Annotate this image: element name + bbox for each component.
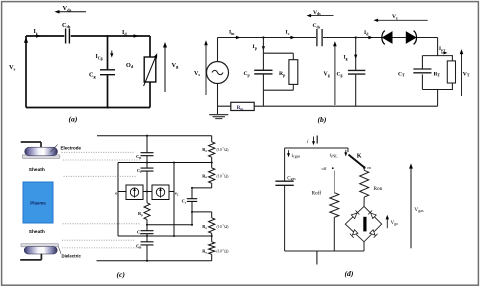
node line lower (c) — [118, 235, 212, 237]
svg-text:Ron: Ron — [374, 186, 383, 192]
bridge diode top-right (d) — [368, 210, 376, 218]
right rail (c) — [173, 163, 175, 237]
link Cc-Re3 (c) — [192, 211, 212, 213]
ground (b) — [209, 114, 228, 116]
wire (a) middle branch lower — [107, 75, 109, 107]
boundary dotted line 3 — [64, 175, 137, 177]
current source box 1 (c) — [126, 185, 143, 200]
off link line (d) — [333, 171, 335, 193]
wire (d) cap branch lower — [284, 186, 286, 251]
wire (d) switch to Ron — [363, 168, 365, 171]
svg-text:(10: (10 — [217, 148, 222, 152]
boundary dotted line 2 — [63, 159, 142, 161]
svg-text:(d): (d) — [345, 269, 354, 278]
current arrow i (d) — [313, 137, 315, 143]
capacitor Cs upper (c) — [141, 168, 154, 171]
wire (b) tank to bottom — [437, 90, 439, 107]
wire (b) top run 1 — [218, 37, 317, 39]
bridge link right (c) — [169, 191, 174, 193]
dielectric disk — [24, 247, 57, 255]
arrow Vgo (d) — [386, 217, 388, 228]
capacitor Cp (b) — [254, 53, 272, 90]
resistor Re1 (c) — [211, 136, 213, 142]
svg-text:Ω): Ω) — [224, 148, 229, 152]
wire (c) Rp to node — [146, 220, 148, 231]
current arrow IPT (b) — [441, 52, 445, 54]
svg-text:off: off — [322, 166, 328, 171]
svg-text:(10: (10 — [217, 225, 222, 229]
diode D2 (b) cathode curve — [414, 31, 417, 45]
junction node Cg top (b) — [355, 36, 357, 38]
boundary dotted line 5 — [62, 239, 135, 241]
arrow Vgas (d) — [410, 166, 412, 248]
dielectric plate — [21, 244, 59, 247]
resistor Rin (b) box — [231, 102, 254, 110]
wire (d) Roff to bottom — [333, 217, 335, 251]
current arrow Iin (b) — [236, 36, 241, 39]
capacitor Cc plates (c) — [187, 199, 197, 202]
junction node Cp top (b) — [262, 36, 264, 38]
current source 1 arrow (c) — [134, 190, 136, 198]
capacitor Cds (b) plates — [317, 29, 322, 46]
node line upper (c) — [118, 162, 212, 164]
svg-text:Sheath: Sheath — [29, 229, 45, 235]
wire (a) left branch with Vs arrow — [25, 36, 27, 108]
diode bridge (d) diamond — [345, 206, 381, 241]
svg-text:Roff: Roff — [312, 190, 322, 197]
svg-text:(c): (c) — [117, 270, 126, 279]
plasma region — [23, 182, 53, 223]
wire (b) down to RC tank — [437, 38, 439, 56]
bridge link center (c) — [143, 191, 152, 193]
wire (b) top run 2 — [323, 37, 438, 39]
resistor Ron (d) — [360, 170, 369, 197]
wire (c) top rail — [97, 135, 212, 137]
arrow Vds (a) — [58, 11, 86, 13]
boundary dotted line 4 — [63, 223, 141, 225]
svg-text:e2: e2 — [175, 191, 179, 197]
svg-text:Sheath: Sheath — [29, 167, 45, 173]
current arrow Id (b) — [368, 36, 373, 39]
AC source (b) circle — [207, 62, 229, 84]
wire (b) bottom run — [218, 105, 438, 107]
arrow Vds (b) — [309, 15, 334, 17]
capacitor Cg (b) plates — [348, 70, 365, 74]
wire (b) AC to top — [217, 38, 219, 62]
junction node (a) mid-bottom — [106, 106, 108, 108]
capacitor Cs lower (c) — [141, 231, 154, 234]
wire (b) parallel top link — [263, 53, 293, 60]
svg-text:Plasma: Plasma — [30, 201, 46, 206]
svg-text:(b): (b) — [318, 115, 327, 124]
wire (d) Ron to bridge — [363, 197, 365, 206]
bridge diode bottom-left (d) — [350, 229, 358, 237]
diode D2 (b) — [406, 31, 417, 44]
current source 2 arrow (c) — [160, 190, 162, 198]
current source 1 circle (c) — [130, 188, 138, 196]
current source 2 circle (c) — [156, 188, 164, 196]
capacitor Cc branch (c) — [191, 188, 193, 225]
wire (b) parallel bottom link — [263, 84, 293, 106]
wire (a) top left segment — [26, 35, 64, 37]
current source box 2 (c) — [152, 185, 169, 200]
wire (c) bottom rail — [97, 260, 212, 262]
electrode disk — [25, 147, 58, 156]
bridge diode bottom-right (d) — [369, 229, 377, 237]
left rail (c) — [117, 163, 119, 237]
svg-text:Dielectric: Dielectric — [62, 254, 82, 259]
varistor Od (a) arrow — [144, 56, 157, 87]
bridge diode top-left (d) — [351, 210, 359, 218]
wire (d) bottom — [285, 250, 364, 252]
wire (d) cap branch upper — [284, 148, 286, 181]
arrow Vs (b) — [205, 43, 207, 95]
svg-text:Rin: Rin — [237, 106, 244, 111]
wire (a) bottom — [26, 107, 150, 109]
wire (c) center to node — [146, 156, 148, 168]
bridge link left (c) — [118, 191, 126, 193]
link Re2-Cc (c) — [192, 187, 212, 189]
resistor Rp (b) box — [289, 60, 298, 85]
svg-text:K: K — [357, 153, 362, 160]
svg-text:irNL: irNL — [330, 153, 339, 159]
capacitor Cds (a) plates — [66, 29, 70, 44]
svg-text:e1: e1 — [115, 191, 119, 197]
boundary dotted line 6 — [62, 247, 140, 249]
svg-text:Id: Id — [122, 30, 127, 36]
current arrow icgas (d) — [288, 150, 290, 154]
resistor Re3 (c) — [211, 212, 213, 218]
current arrow Id (a) — [134, 34, 139, 38]
arrow VT (b) — [461, 51, 463, 96]
svg-text:icgas: icgas — [292, 153, 301, 159]
AC source (b) sine — [212, 70, 223, 74]
wire (c) center bottom — [146, 245, 148, 261]
arrow Vz (b) — [376, 19, 428, 21]
wire (b) AC to ground — [217, 84, 219, 115]
wire (b) Cp branch top — [262, 38, 264, 54]
current arrow ICg (a) — [111, 51, 113, 55]
wire (c) center upper — [146, 136, 148, 153]
dielectric pointer line — [59, 247, 62, 254]
resistor Re2 (c) — [209, 168, 215, 183]
arrow Vg (a) — [164, 45, 166, 92]
switch K (d) — [349, 155, 365, 168]
wire (d) bridge to bottom — [363, 242, 365, 251]
svg-text:Ω): Ω) — [224, 225, 229, 229]
electrode pointer line — [50, 145, 57, 153]
svg-text:Ω): Ω) — [224, 249, 229, 253]
resistor Roff (d) — [330, 193, 339, 218]
bridge center bar (d) — [363, 217, 366, 232]
svg-text:Ω): Ω) — [224, 174, 229, 178]
varistor Od (a) box — [144, 57, 156, 82]
capacitor CB lower (c) — [141, 242, 154, 245]
dielectric wire stub — [20, 254, 41, 260]
diode D1 (b) — [382, 31, 393, 44]
capacitor Cgas (d) plates — [275, 181, 293, 185]
current arrow Is (a) — [36, 34, 41, 38]
svg-text:Is: Is — [34, 29, 38, 35]
wire (c) center low — [146, 234, 148, 242]
svg-text:(10: (10 — [217, 249, 222, 253]
arrow Vg (b) — [334, 44, 336, 105]
svg-text:Vs: Vs — [194, 71, 200, 77]
boundary dotted line 1 — [62, 151, 134, 153]
ground stub (d) — [316, 251, 318, 265]
wire (d) top — [285, 148, 348, 152]
electrode plate — [22, 155, 60, 159]
svg-text:(a): (a) — [69, 115, 78, 124]
RC tank (b) outline — [422, 56, 452, 90]
junction node (a) mid-top — [106, 35, 108, 37]
wire (c) center mid — [146, 171, 148, 202]
resistor Rp (c) — [144, 203, 150, 220]
current arrow irNL (d) — [345, 150, 347, 154]
svg-text:Electrode: Electrode — [61, 146, 82, 151]
wire (a) right branch — [149, 36, 151, 108]
current arrow Ic (b) — [290, 36, 295, 39]
svg-text:(10: (10 — [217, 174, 222, 178]
wire (a) top right segment — [71, 35, 150, 37]
tick mark top (d) — [316, 136, 318, 144]
wire (b) Cg branch — [355, 38, 357, 107]
junction dots (c) — [146, 135, 148, 137]
electrode wire stub — [21, 142, 41, 150]
capacitor CT (b) plates — [413, 69, 431, 73]
capacitor CB upper (c) — [141, 153, 154, 156]
link Rp-Cc (c) — [147, 224, 192, 226]
resistor Re4 (c) — [211, 236, 213, 242]
current arrow Ig (b) — [354, 55, 357, 59]
capacitor Cg (a) plates — [100, 70, 115, 75]
diode D1 (b) cathode curve — [382, 31, 385, 45]
capacitor Cp (b) plates — [254, 70, 272, 74]
svg-text:on: on — [367, 166, 371, 170]
resistor RT (b) — [447, 61, 455, 83]
current arrow Ip (b) — [262, 46, 265, 50]
wire (a) middle branch upper — [107, 36, 109, 69]
